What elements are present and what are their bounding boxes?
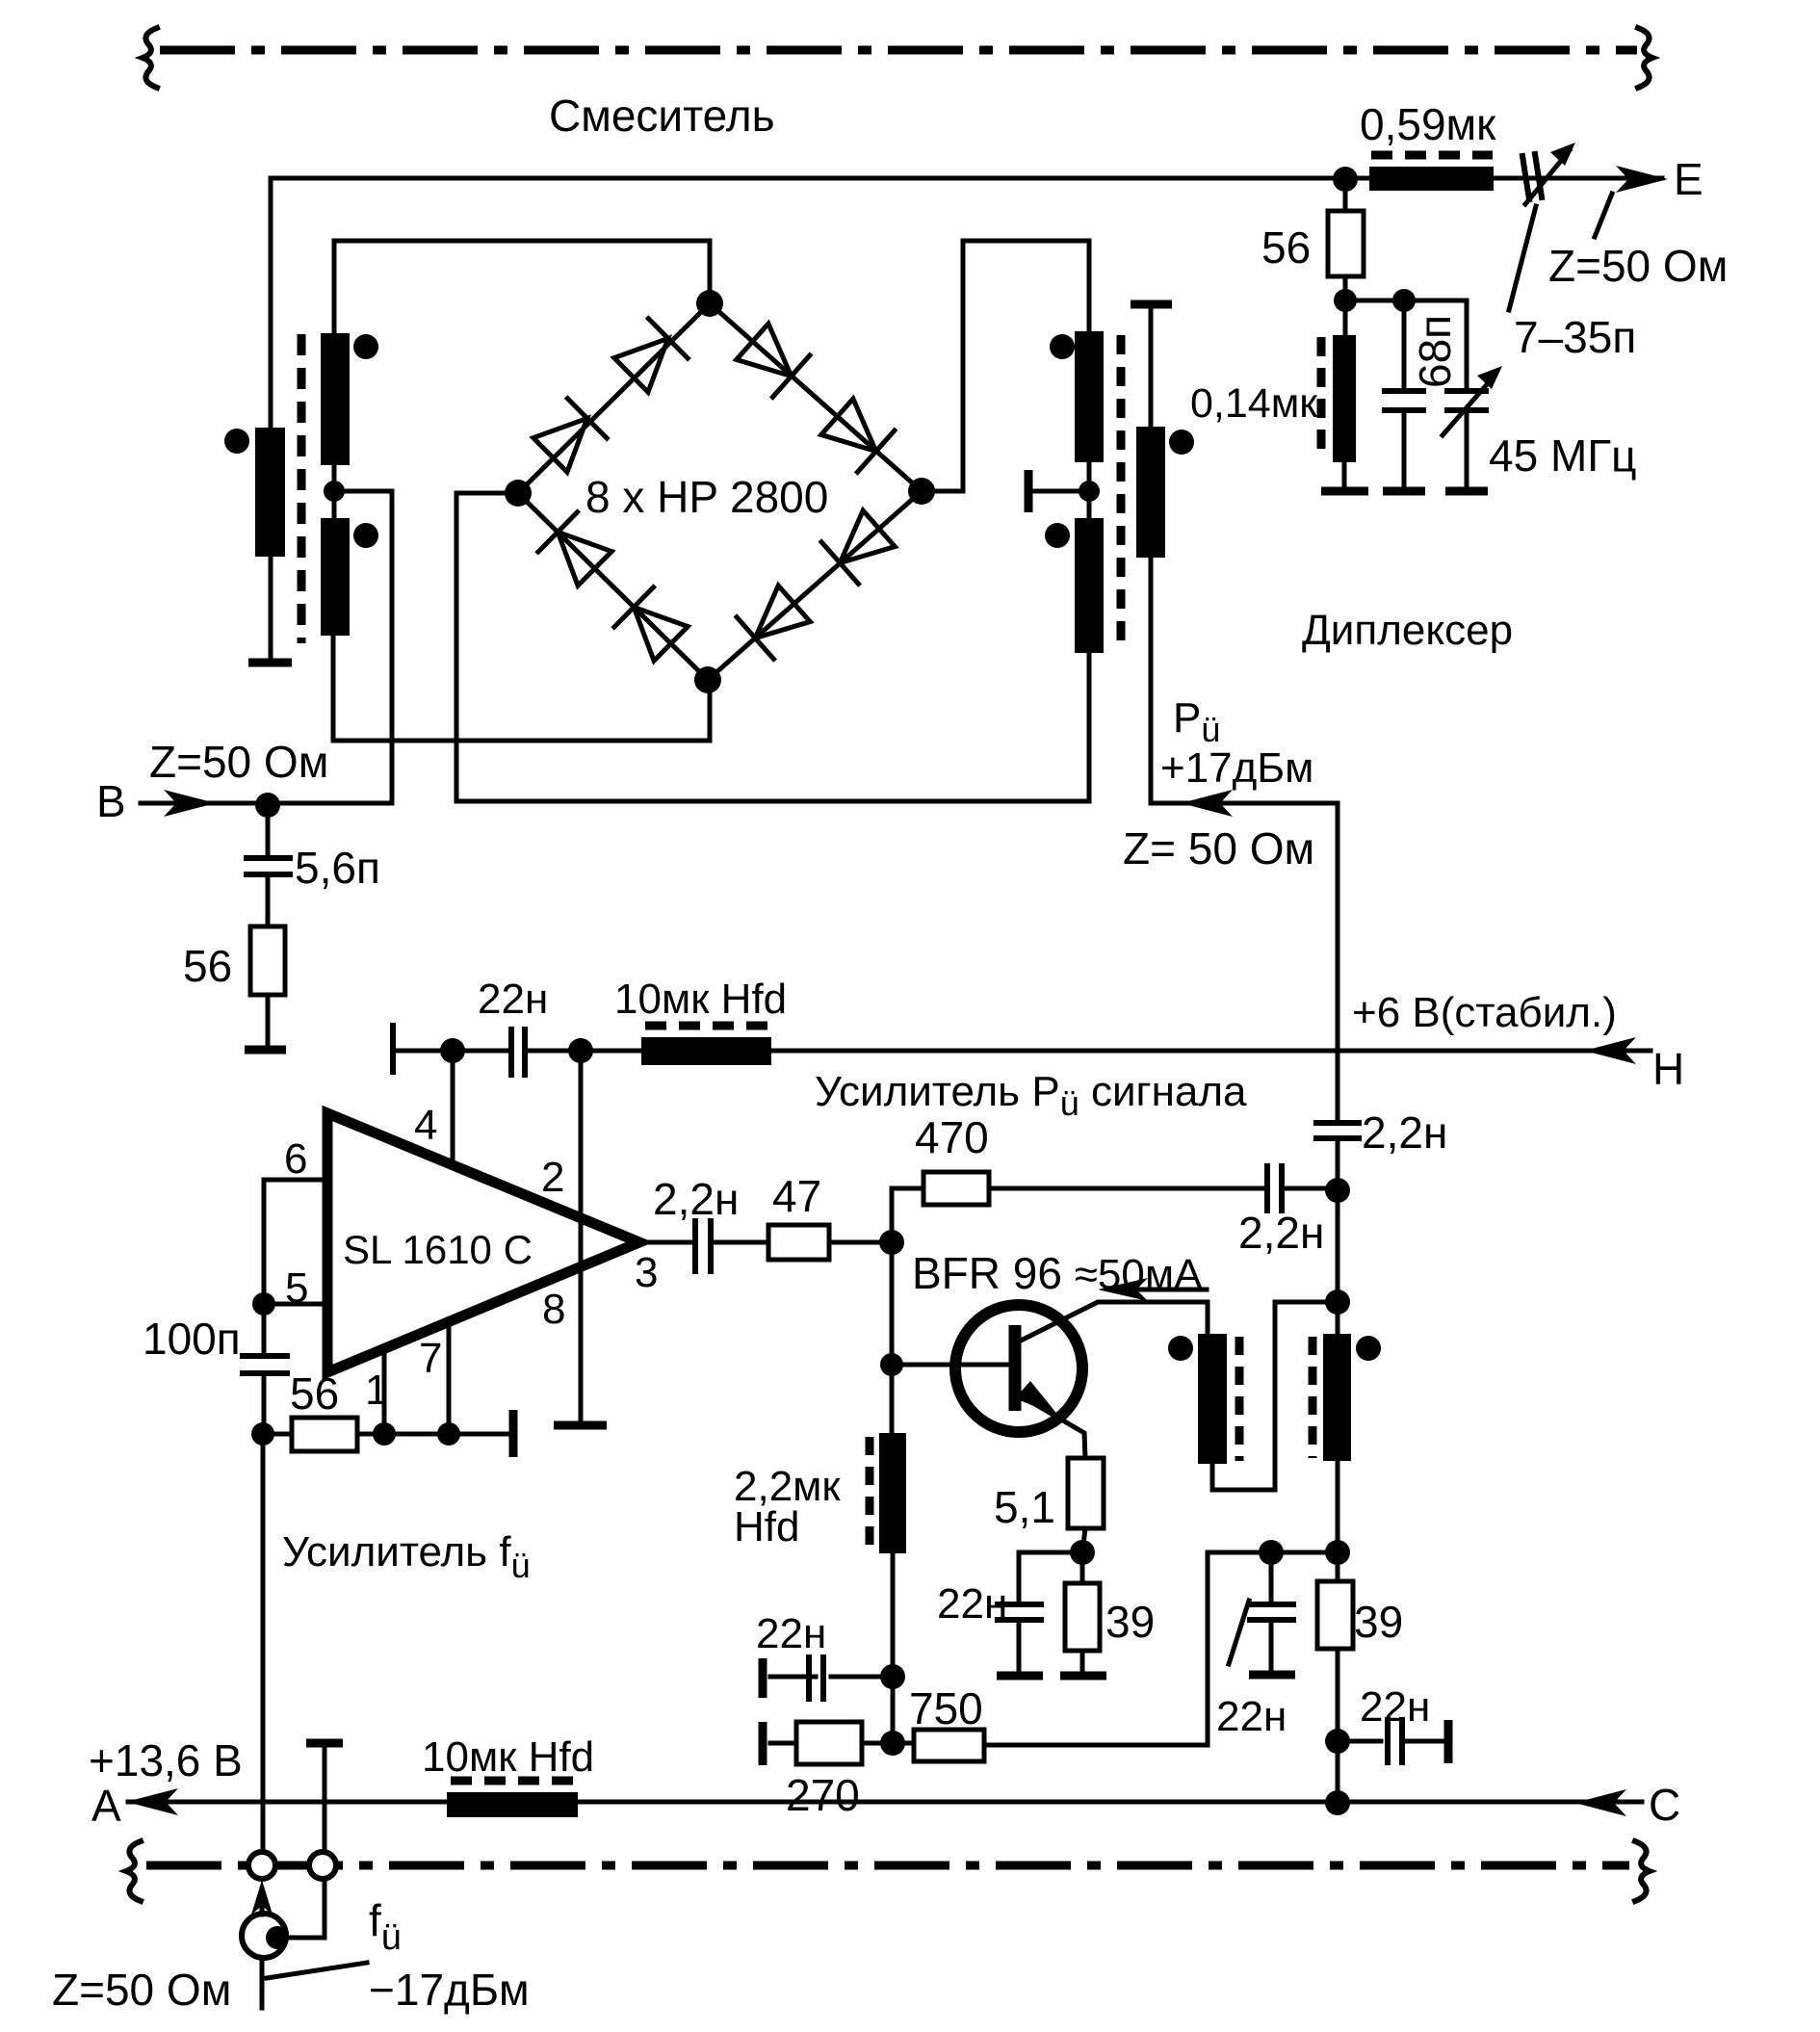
diode D6 [737, 583, 813, 659]
node: pin 4 dot on +6V rail [440, 1038, 465, 1063]
ground bar right of 22н decoupling [1444, 1720, 1453, 1763]
label 68п (rotated) [1410, 315, 1460, 388]
label 0,59мк [1360, 99, 1496, 149]
label BFR 96 ≈50мА [912, 1248, 1203, 1298]
svg-text:0,14мк: 0,14мк [1190, 380, 1318, 427]
wire: ring right node over-path to T2 primary top [922, 241, 1089, 491]
svg-text:22н: 22н [1360, 1683, 1430, 1731]
wire: T3 left bottom link to node [1212, 1302, 1338, 1490]
svg-text:7: 7 [419, 1335, 442, 1382]
label 45 МГц [1489, 430, 1637, 481]
svg-text:45 МГц: 45 МГц [1489, 430, 1637, 481]
pointer line from trimmer to label 7-35п [1509, 206, 1536, 310]
svg-text:22н: 22н [756, 1610, 826, 1657]
label 10мк Hfd (supply A) [422, 1733, 594, 1781]
wire: T2 center tap ground stub [1032, 489, 1089, 494]
wire: emitter dot to 22н [1019, 1552, 1082, 1604]
wire: T2 primary bottom lead to lower rail [1087, 653, 1092, 801]
label Усилитель Pü сигнала [815, 1068, 1247, 1123]
pin 5 label [285, 1264, 308, 1312]
svg-text:68п: 68п [1410, 315, 1460, 388]
pin 4 label [414, 1102, 437, 1149]
wire: ring top node lead [708, 241, 713, 303]
arrowhead C (pointing left) [1574, 1789, 1626, 1816]
resistor 47 [768, 1225, 829, 1260]
label 22н (emitter) [937, 1580, 1007, 1628]
transformer T1 primary winding [255, 428, 285, 557]
resistor 470 [923, 1172, 989, 1205]
feedthrough stub with top bar [306, 1743, 343, 1853]
pin 7 label [419, 1335, 442, 1382]
svg-text:3: 3 [635, 1249, 658, 1296]
node: pin 1 dot [373, 1422, 396, 1446]
diode D7 [614, 587, 690, 664]
label Смеситель (Mixer) [549, 91, 775, 141]
svg-text:Z=50 Ом: Z=50 Ом [149, 737, 328, 787]
svg-text:Hfd: Hfd [734, 1503, 799, 1550]
label Z=50 Ом (B input) [149, 737, 328, 787]
wire: T1 secondary mid link [332, 465, 337, 518]
wire: T1 secondary top lead [332, 241, 337, 333]
svg-text:8: 8 [542, 1286, 565, 1333]
pin 1 label [365, 1367, 388, 1414]
inductor 0,14мк with core dash [1321, 300, 1356, 487]
capacitor 100п [243, 1304, 287, 1434]
capacitor 68п [1385, 300, 1423, 487]
label 10мк Hfd (supply) [614, 976, 787, 1023]
capacitor 2,2н (LO feed) [1316, 1123, 1359, 1190]
label Z= 50 Ом (LO input) [1123, 823, 1314, 873]
T3 right polarity dot [1356, 1336, 1381, 1361]
pin 2 label [541, 1154, 564, 1201]
ground bar under 56 [245, 1046, 286, 1055]
wire: 470 feedback rail [892, 1188, 1338, 1242]
capacitor 22н (output, slash) [1229, 1552, 1293, 1669]
coax connector arrow up [251, 1880, 273, 1915]
T1 secondary bottom polarity dot [353, 523, 378, 548]
label Z=50 Ом (LO source) [52, 1965, 231, 2015]
svg-text:56: 56 [1261, 222, 1311, 273]
wire: diplexer tank top rail [1345, 300, 1467, 371]
T1 secondary top polarity dot [353, 334, 378, 359]
pin 6 label [284, 1135, 307, 1183]
label H [1652, 1044, 1684, 1094]
svg-text:270: 270 [786, 1770, 860, 1820]
resistor 56 (B input) [250, 926, 285, 1046]
svg-text:SL 1610 C: SL 1610 C [343, 1227, 533, 1272]
pin 6 wire [264, 1180, 327, 1304]
pin 3 label [635, 1249, 658, 1296]
node: ring bottom dot [694, 666, 721, 693]
resistor 56 (op-amp) [292, 1418, 357, 1451]
label 2,2мк Hfd [734, 1463, 841, 1550]
wire: B input line [141, 801, 392, 806]
node: base bias dot (270/750) [880, 1731, 905, 1756]
T2 secondary polarity dot [1169, 430, 1194, 455]
node: ring left dot [505, 480, 532, 507]
svg-text:Z=50 Ом: Z=50 Ом [52, 1965, 231, 2015]
ground bar under 22н emitter [997, 1672, 1043, 1680]
label 22н (output) [1216, 1693, 1287, 1740]
diode D2 [611, 319, 688, 395]
node: dot 68п junction [1392, 289, 1416, 312]
wire: +13,6V A-C rail [128, 1800, 1642, 1805]
inductor 2,2мк Hfd [870, 1365, 906, 1677]
Q1 emitter lead with arrow [1015, 1381, 1085, 1458]
capacitor 2,2н (output) [695, 1221, 711, 1271]
node: supply rail dot [1325, 1790, 1350, 1815]
diode D5 [821, 508, 897, 584]
pin 2/8 ground wire [579, 1051, 584, 1421]
wire: T2 secondary top lead [1149, 306, 1154, 427]
transformer T2 secondary winding [1136, 427, 1165, 558]
capacitor 22н (supply) [511, 1029, 525, 1075]
node: pin 7 dot [437, 1422, 460, 1446]
diode D4 [819, 396, 895, 472]
svg-text:C: C [1649, 1780, 1680, 1830]
ground bar above T2 secondary [1131, 300, 1172, 309]
node: junction dot at 0,59uH / 56 [1333, 167, 1358, 192]
shield border top right curl [1638, 28, 1652, 88]
resistor 750 [893, 1552, 1208, 1761]
label E [1674, 154, 1703, 204]
label 7-35п [1514, 312, 1636, 362]
transformer T3 right winding [1313, 1334, 1351, 1461]
node: B line dot [255, 793, 280, 818]
node: T2 center tap dot [1079, 481, 1100, 502]
label 22н (base bias) [756, 1610, 826, 1657]
ground bar under 39 emitter [1060, 1672, 1106, 1680]
Q1 base bar [1009, 1325, 1022, 1411]
label 750 [909, 1683, 983, 1733]
resistor 39 (emitter) [1065, 1552, 1100, 1670]
node: collector feed dot [1325, 1178, 1350, 1203]
node: output/470 dot [879, 1230, 904, 1255]
label 56 (diplexer) [1261, 222, 1311, 273]
svg-text:100п: 100п [143, 1314, 241, 1364]
T2 primary top polarity dot [1050, 334, 1075, 359]
wire: T1 primary top lead [269, 178, 273, 428]
svg-text:7–35п: 7–35п [1514, 312, 1636, 362]
label 470 [915, 1112, 989, 1162]
svg-text:2,2н: 2,2н [1362, 1107, 1447, 1158]
wire: feedback ground rail [263, 1432, 507, 1437]
transformer T2 primary top winding [1075, 331, 1104, 462]
wire: op-amp rail down to feedthrough [261, 1434, 266, 1853]
wire: output bias rail y=1612 [1208, 1550, 1338, 1555]
ground bar left of 22н base [759, 1658, 767, 1698]
ground bar under T1 primary [248, 659, 292, 667]
svg-text:E: E [1674, 154, 1703, 204]
svg-text:22н: 22н [937, 1580, 1007, 1628]
label Z=50 Ом (E output) [1548, 241, 1728, 291]
svg-text:5,6п: 5,6п [295, 843, 380, 893]
arrowhead A (pointing left) [126, 1788, 178, 1815]
svg-text:47: 47 [772, 1171, 821, 1221]
pin 1 wire [382, 1348, 387, 1434]
diode D3 [734, 321, 810, 397]
T1 primary polarity dot [224, 429, 249, 454]
label A [91, 1781, 121, 1831]
wire: T1 secondary top link y=250 [334, 239, 710, 244]
label 22н (decoupling) [1360, 1683, 1430, 1731]
svg-text:B: B [96, 776, 126, 826]
svg-text:Z= 50 Ом: Z= 50 Ом [1123, 823, 1314, 873]
T2 primary bottom polarity dot [1045, 523, 1070, 548]
inductor 0,59мк [1369, 155, 1494, 191]
wire: connector shield link [286, 1879, 325, 1938]
label 56 (B input) [183, 941, 232, 991]
label +6 В (стабил.) [1352, 989, 1617, 1036]
ground bar under 68п [1383, 487, 1425, 496]
label −17дБм [369, 1965, 530, 2015]
label 2,2н (output) [653, 1174, 739, 1224]
node: dot 56/0,14мк junction [1334, 289, 1357, 312]
trimmer capacitor 7-35п [1443, 366, 1502, 487]
label Диплексер (Diplexer) [1302, 607, 1513, 654]
trimmer capacitor (series, E output) [1522, 143, 1575, 204]
node: emitter network dot [1070, 1540, 1095, 1565]
svg-text:10мк Hfd: 10мк Hfd [422, 1733, 594, 1781]
svg-text:2: 2 [541, 1154, 564, 1201]
wire: top LO/E line y=185 [271, 176, 1662, 181]
wire: +6V H rail [393, 1049, 1651, 1054]
arrowhead Pü input (pointing left) [1181, 790, 1233, 817]
label 8 x HP 2800 [585, 472, 828, 522]
svg-text:5: 5 [285, 1264, 308, 1312]
ground bar at T2 center tap [1025, 470, 1033, 512]
label Усилитель fü [282, 1528, 531, 1585]
node: ring top dot [696, 290, 723, 317]
resistor 39 (output) [1317, 1552, 1353, 1803]
wire: base lead [892, 1363, 1010, 1368]
svg-text:A: A [91, 1781, 121, 1831]
node: pin 2/8 rail dot [568, 1038, 593, 1063]
svg-text:470: 470 [915, 1112, 989, 1162]
shield border top (dash-dot) [160, 46, 1637, 55]
inductor 10мк Hfd (supply) [641, 1026, 771, 1065]
wire: op-amp output [639, 1240, 892, 1245]
svg-text:4: 4 [414, 1102, 437, 1149]
shield border bottom left curl [126, 1841, 141, 1901]
node: T1 center tap dot [324, 481, 345, 502]
label +13,6 В [89, 1735, 243, 1785]
svg-text:0,59мк: 0,59мк [1360, 99, 1496, 149]
label fü [369, 1895, 402, 1958]
node: T3 mid dot [1325, 1290, 1350, 1315]
svg-text:39: 39 [1354, 1597, 1403, 1647]
terminal tick at left end of +6V rail [390, 1026, 396, 1072]
capacitor 22н (emitter) [998, 1604, 1041, 1670]
diode D1 [531, 399, 607, 475]
shield border bottom (dash-dot) [146, 1862, 1629, 1870]
T3 left polarity dot [1168, 1336, 1193, 1361]
wire: T1 center tap jog to B line [334, 491, 392, 803]
svg-text:39: 39 [1105, 1597, 1155, 1647]
node: decoupling dot [1325, 1729, 1350, 1754]
arrowhead H (pointing left) [1584, 1037, 1636, 1064]
svg-text:+17дБм: +17дБм [1160, 744, 1313, 792]
label 39 (emitter) [1105, 1597, 1155, 1647]
label 56 (op-amp) [290, 1368, 339, 1419]
label B [96, 776, 126, 826]
transformer T2 primary bottom winding [1075, 518, 1104, 653]
wire: connector stub below [260, 1958, 265, 2008]
node: 39/T3 dot [1325, 1540, 1350, 1565]
transistor Q1 BFR96 circle [955, 1305, 1082, 1432]
label C [1649, 1780, 1680, 1830]
wire: ring left node to lower rail [456, 493, 1089, 801]
arrowhead E (pointing right) [1616, 166, 1668, 193]
svg-text:Смеситель: Смеситель [549, 91, 775, 141]
wire: T1 primary bottom lead [269, 557, 273, 659]
svg-text:56: 56 [290, 1368, 339, 1419]
svg-text:1: 1 [365, 1367, 388, 1414]
transformer T1 secondary bottom winding [321, 518, 350, 636]
wire: T2 primary mid link [1087, 462, 1092, 518]
svg-text:5,1: 5,1 [994, 1482, 1055, 1532]
resistor 5,1 [1068, 1458, 1104, 1552]
label 5,6п [295, 843, 380, 893]
diode D8 [538, 512, 614, 588]
svg-text:−17дБм: −17дБм [369, 1965, 530, 2015]
node: 56/100п dot [251, 1422, 274, 1446]
svg-text:750: 750 [909, 1683, 983, 1733]
op-amp U1 SL1610C triangle [327, 1113, 639, 1372]
shield border top left curl [143, 28, 157, 88]
pointer line from Z=50 label to E line [1595, 194, 1612, 237]
ground bar under 7-35п [1445, 487, 1488, 496]
label 270 [786, 1770, 860, 1820]
node: ring right dot [908, 478, 935, 505]
resistor 270 [770, 1722, 893, 1764]
node: pin5/100п dot [252, 1292, 275, 1316]
ground bar under 0,14мк [1321, 487, 1368, 496]
transformer T3 left winding [1198, 1334, 1239, 1464]
svg-text:22н: 22н [478, 976, 548, 1023]
wire: LO node to T3 right winding [1336, 1190, 1340, 1334]
diode ring side L-T [518, 303, 710, 493]
capacitor 22н (decoupling) [1338, 1720, 1444, 1762]
ground bar left of 270 [759, 1722, 767, 1765]
ground bar (pin1/7 rail) [509, 1410, 518, 1457]
label SL 1610 C [343, 1227, 533, 1272]
pin 8 label [542, 1286, 565, 1333]
svg-text:10мк Hfd: 10мк Hfd [614, 976, 787, 1023]
label 100п [143, 1314, 241, 1364]
resistor 56 (diplexer) [1328, 192, 1364, 300]
ground bar pin 2/8 [554, 1421, 607, 1430]
pin 4 wire [451, 1051, 455, 1167]
node: 22н slash dot [1259, 1540, 1284, 1565]
label 2,2н (LO feed) [1362, 1107, 1447, 1158]
label 39 (output) [1354, 1597, 1403, 1647]
label Pü [1173, 694, 1220, 749]
label 0,14мк [1190, 380, 1318, 427]
svg-text:6: 6 [284, 1135, 307, 1183]
label 22н (supply) [478, 976, 548, 1023]
svg-text:Z=50 Ом: Z=50 Ом [1548, 241, 1728, 291]
label 2,2н (feedback) [1238, 1208, 1324, 1258]
svg-text:2,2н: 2,2н [1238, 1208, 1324, 1258]
svg-text:56: 56 [183, 941, 232, 991]
T2 core (dashed) [1117, 335, 1126, 649]
transformer T1 secondary top winding [321, 333, 350, 465]
coax connector body [242, 1914, 289, 1958]
pin 7 wire [447, 1321, 452, 1434]
capacitor 22н (base bias) [770, 1657, 893, 1699]
svg-text:2,2н: 2,2н [653, 1174, 739, 1224]
capacitor 2,2н (feedback) [1267, 1166, 1282, 1211]
svg-text:H: H [1652, 1044, 1684, 1094]
svg-text:Усилитель Pü сигнала: Усилитель Pü сигнала [815, 1068, 1247, 1123]
svg-text:8 x HP 2800: 8 x HP 2800 [585, 472, 828, 522]
wire: T1 secondary bottom to ring bottom node [333, 636, 710, 741]
label 47 [772, 1171, 821, 1221]
wire: T3 right bottom lead [1336, 1461, 1340, 1552]
shield border bottom right curl [1635, 1841, 1650, 1901]
label +17дБм [1160, 744, 1313, 792]
wire: bias divider vertical [891, 1677, 896, 1743]
ground bar under 22н output [1249, 1671, 1295, 1680]
feedthrough insulator circle 2 [309, 1852, 336, 1879]
T1 core (dashed) [298, 334, 306, 643]
Q1 collector lead [1017, 1302, 1208, 1342]
diode ring side R-B [708, 491, 922, 680]
node: base dot [880, 1353, 903, 1376]
svg-text:Диплексер: Диплексер [1302, 607, 1513, 654]
feedthrough insulator circle 1 [248, 1852, 275, 1879]
capacitor 5,6п [247, 805, 290, 926]
inductor 10мк Hfd (supply A) [447, 1781, 578, 1817]
wire: base feed vertical [890, 1242, 895, 1365]
label 5,1 [994, 1482, 1055, 1532]
pointer line to connector [267, 1963, 367, 1978]
svg-text:+13,6 В: +13,6 В [89, 1735, 243, 1785]
pin 5 wire [264, 1302, 327, 1307]
node: base bias dot (22н) [880, 1664, 905, 1689]
arrowhead B (pointing right) [164, 790, 216, 817]
wire: T2 secondary bottom to LO input [1151, 558, 1338, 1120]
diode ring side T-R [710, 303, 922, 491]
svg-text:22н: 22н [1216, 1693, 1287, 1740]
diode ring side B-L [518, 493, 708, 680]
svg-text:+6 В(стабил.): +6 В(стабил.) [1352, 989, 1617, 1036]
annotation arrow 50мА (pointing left) [1098, 1278, 1207, 1301]
